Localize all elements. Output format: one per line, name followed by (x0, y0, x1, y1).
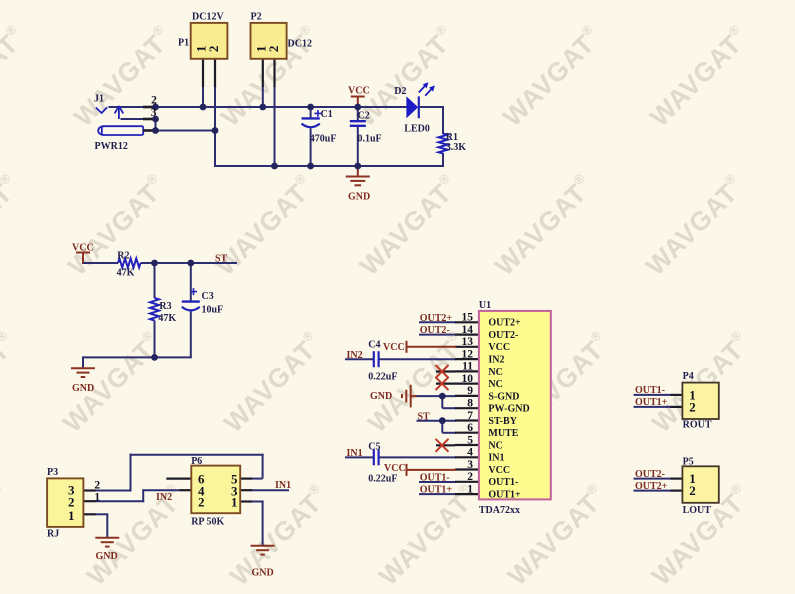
svg-text:LOUT: LOUT (683, 505, 712, 516)
svg-text:NC: NC (488, 440, 502, 451)
svg-text:6: 6 (467, 422, 473, 434)
svg-text:2: 2 (266, 46, 281, 53)
svg-text:R2: R2 (117, 251, 129, 262)
svg-text:OUT1+: OUT1+ (635, 397, 668, 408)
svg-text:15: 15 (462, 312, 474, 324)
svg-text:2: 2 (94, 479, 100, 491)
svg-text:4: 4 (467, 447, 473, 459)
svg-text:C2: C2 (358, 110, 370, 121)
svg-text:P2: P2 (251, 12, 262, 23)
svg-text:2: 2 (198, 495, 205, 510)
svg-text:OUT2+: OUT2+ (488, 318, 521, 329)
svg-text:3.3K: 3.3K (446, 142, 467, 153)
svg-text:OUT2-: OUT2- (635, 469, 665, 480)
svg-text:GND: GND (96, 551, 118, 562)
svg-text:P3: P3 (47, 467, 58, 478)
svg-text:VCC: VCC (383, 342, 405, 353)
svg-text:OUT1-: OUT1- (488, 477, 518, 488)
svg-text:OUT1+: OUT1+ (420, 485, 453, 496)
svg-text:IN2: IN2 (488, 355, 504, 366)
svg-text:U1: U1 (479, 300, 491, 311)
svg-text:2: 2 (467, 471, 473, 483)
svg-text:5: 5 (467, 434, 473, 446)
svg-text:OUT2-: OUT2- (420, 325, 450, 336)
svg-text:14: 14 (462, 324, 474, 336)
svg-text:8: 8 (467, 398, 473, 410)
svg-text:C1: C1 (321, 109, 333, 120)
svg-text:OUT1+: OUT1+ (488, 490, 521, 501)
svg-text:P4: P4 (683, 371, 694, 382)
svg-text:C5: C5 (368, 441, 380, 452)
svg-text:NC: NC (488, 367, 502, 378)
svg-text:PWR12: PWR12 (95, 141, 128, 152)
svg-text:0.22uF: 0.22uF (368, 474, 397, 485)
svg-text:0.1uF: 0.1uF (358, 133, 382, 144)
svg-text:IN1: IN1 (275, 480, 291, 491)
svg-text:2: 2 (689, 400, 696, 415)
svg-text:470uF: 470uF (310, 133, 337, 144)
svg-text:VCC: VCC (384, 463, 406, 474)
svg-text:OUT1-: OUT1- (420, 473, 450, 484)
svg-text:2: 2 (206, 46, 221, 53)
svg-text:IN1: IN1 (488, 453, 504, 464)
svg-text:OUT2+: OUT2+ (420, 313, 453, 324)
svg-text:IN1: IN1 (347, 448, 363, 459)
svg-text:9: 9 (467, 385, 473, 397)
svg-text:ST-BY: ST-BY (488, 416, 517, 427)
svg-text:P6: P6 (191, 456, 202, 467)
svg-text:C4: C4 (368, 340, 380, 351)
svg-text:3: 3 (467, 459, 473, 471)
svg-text:TDA72xx: TDA72xx (479, 505, 520, 516)
svg-text:OUT2+: OUT2+ (635, 481, 668, 492)
svg-text:VCC: VCC (488, 465, 510, 476)
svg-text:1: 1 (467, 483, 473, 495)
svg-text:VCC: VCC (72, 242, 94, 253)
svg-text:D2: D2 (394, 86, 406, 97)
svg-text:47K: 47K (158, 313, 176, 324)
svg-text:GND: GND (252, 568, 274, 579)
svg-text:47K: 47K (117, 267, 135, 278)
svg-text:0.22uF: 0.22uF (368, 372, 397, 383)
svg-text:RP 50K: RP 50K (191, 516, 224, 527)
svg-text:7: 7 (467, 410, 473, 422)
svg-text:LED0: LED0 (404, 123, 430, 134)
svg-text:2: 2 (151, 95, 157, 107)
svg-text:PW-GND: PW-GND (488, 404, 529, 415)
svg-text:GND: GND (72, 383, 94, 394)
svg-text:1: 1 (231, 495, 238, 510)
svg-text:ST: ST (215, 254, 228, 265)
svg-text:MUTE: MUTE (488, 428, 518, 439)
svg-text:DC12V: DC12V (192, 12, 224, 23)
svg-text:13: 13 (462, 336, 474, 348)
svg-text:VCC: VCC (348, 86, 370, 97)
svg-text:P1: P1 (178, 38, 189, 49)
svg-text:C3: C3 (202, 291, 214, 302)
svg-text:J1: J1 (94, 94, 104, 105)
svg-text:VCC: VCC (488, 342, 510, 353)
svg-text:OUT2-: OUT2- (488, 330, 518, 341)
svg-text:DC12: DC12 (288, 38, 312, 49)
svg-text:10: 10 (462, 373, 474, 385)
svg-text:1: 1 (68, 508, 75, 523)
svg-text:2: 2 (689, 483, 696, 498)
svg-text:NC: NC (488, 379, 502, 390)
svg-text:ST: ST (418, 411, 431, 422)
svg-text:RJ: RJ (47, 528, 59, 539)
svg-text:10uF: 10uF (202, 304, 224, 315)
svg-text:S-GND: S-GND (488, 391, 519, 402)
svg-text:GND: GND (348, 192, 370, 203)
svg-text:IN2: IN2 (347, 350, 363, 361)
svg-text:11: 11 (462, 361, 473, 373)
svg-text:OUT1-: OUT1- (635, 385, 665, 396)
svg-text:3: 3 (151, 107, 157, 119)
svg-text:IN2: IN2 (156, 492, 172, 503)
svg-text:R3: R3 (159, 301, 171, 312)
svg-text:12: 12 (462, 348, 474, 360)
svg-text:ROUT: ROUT (683, 420, 712, 431)
svg-text:P5: P5 (683, 456, 694, 467)
svg-text:1: 1 (94, 491, 100, 503)
svg-text:GND: GND (370, 391, 392, 402)
